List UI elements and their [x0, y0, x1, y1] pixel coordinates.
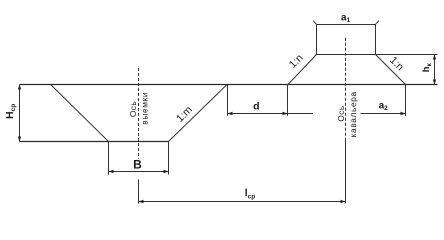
B arrow left — [109, 170, 114, 173]
d extension line left — [227, 85, 229, 116]
cavalier top edge / a1 dimension line — [317, 24, 376, 26]
lcp left extension line — [138, 180, 140, 204]
d + a2 dimension line (left part) — [228, 113, 314, 115]
a2 arrow right — [401, 112, 406, 115]
d arrow right — [283, 112, 288, 115]
svg-text:кавальера: кавальера — [348, 91, 358, 137]
lcp arrow right — [341, 200, 346, 203]
a2 dimension line (right part) — [361, 113, 406, 115]
excavation right slope 1:m — [169, 85, 228, 142]
B extension line left — [108, 142, 110, 175]
a1 tick left — [313, 21, 317, 25]
cavalier shoulder line (extends right to hk dimension) — [316, 54, 438, 56]
lcp arrow left — [139, 200, 144, 203]
a2 right extension line — [405, 85, 407, 116]
cavalier left slope 1:n — [288, 55, 317, 85]
B extension line right — [168, 142, 170, 175]
svg-text:В: В — [133, 158, 142, 172]
excavation axis (dashed) — [138, 68, 140, 159]
cavalier right vertical side — [375, 25, 377, 55]
hk arrow down — [433, 80, 436, 85]
d arrow left — [228, 112, 233, 115]
Hcp arrow up — [18, 85, 21, 90]
hk dimension line (vertical, right) — [434, 55, 436, 85]
B arrow right — [164, 170, 169, 173]
lcp dimension line — [139, 201, 346, 203]
B dimension line — [109, 171, 169, 173]
svg-text:d: d — [253, 100, 259, 112]
cavalier axis (dashed upper part) — [345, 38, 347, 140]
excavation left slope — [51, 85, 109, 142]
svg-text:Ось: Ось — [336, 105, 346, 121]
d extension line right / cavalier base left corner — [287, 85, 289, 116]
excavation bottom line — [20, 141, 169, 143]
cavalier right slope 1:n — [376, 55, 406, 85]
Hcp dimension line (vertical, left) — [19, 85, 21, 142]
a1 tick right — [375, 21, 379, 25]
hk arrow up — [433, 55, 436, 60]
cavalier axis (solid lower part / lcp right extension) — [345, 140, 347, 204]
Hcp arrow down — [18, 137, 21, 142]
svg-text:Ось: Ось — [128, 101, 138, 117]
label axis of cavalier (rotated) — [336, 91, 358, 137]
svg-text:выемки: выемки — [139, 92, 149, 125]
ground surface line — [20, 84, 438, 86]
label axis of excavation (rotated) — [128, 92, 149, 125]
cavalier left vertical side — [316, 25, 318, 55]
